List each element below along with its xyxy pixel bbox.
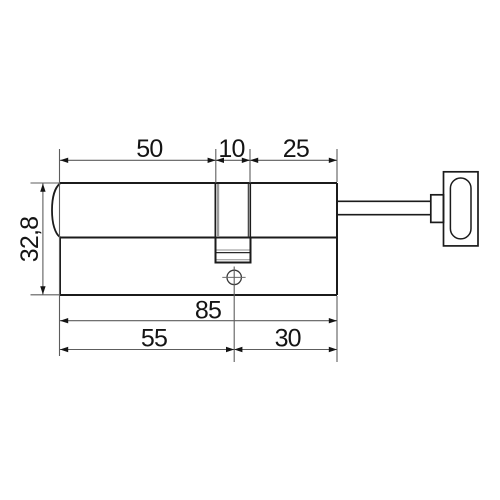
arrows 55/30 dim	[60, 347, 337, 352]
extension line right bottom x=337	[336, 296, 338, 362]
dimension line top (50/10/25)	[60, 159, 337, 161]
extension line x=215.8	[215, 149, 217, 183]
cam section left inner shade	[217, 184, 220, 236]
extension line right top x=337	[336, 149, 338, 182]
thumbturn bow	[444, 172, 479, 246]
svg-text:25: 25	[283, 135, 309, 163]
svg-text:55: 55	[141, 324, 167, 352]
arrows top dim	[60, 158, 337, 163]
dimension line 85	[60, 320, 337, 322]
cam section left edge	[214, 184, 216, 238]
arrows 85 dim	[60, 318, 337, 323]
thumbturn grip slot	[450, 178, 471, 239]
cam lug below body	[216, 238, 251, 263]
cam lug line 3	[217, 259, 250, 261]
extension line screw hole x=234.2	[233, 267, 235, 363]
thumbturn collar	[431, 195, 444, 223]
extension line x=250	[249, 149, 251, 183]
svg-text:30: 30	[275, 324, 301, 352]
fixing screw hole	[227, 270, 241, 284]
svg-text:10: 10	[218, 135, 244, 163]
svg-text:32,8: 32,8	[16, 217, 44, 262]
svg-text:50: 50	[136, 135, 162, 163]
cam section right inner edge	[247, 184, 249, 238]
screw hole cross horizontal	[222, 276, 245, 278]
extension line 32.8 top	[31, 182, 60, 184]
tailpiece stem bottom	[337, 214, 431, 216]
dimension line 32.8	[42, 184, 44, 295]
cylinder body outline	[60, 183, 338, 295]
barrel left end arc	[52, 184, 60, 238]
arrows 32.8 dim	[40, 184, 45, 295]
tailpiece stem top	[337, 200, 431, 202]
extension line 32.8 bottom	[31, 294, 60, 296]
cam section right edge	[249, 184, 251, 238]
extension line left x=59.5	[59, 149, 61, 356]
svg-text:85: 85	[195, 297, 221, 325]
dimension line 55/30	[60, 349, 337, 351]
cam lug line 1	[217, 249, 250, 251]
cam lug line 2	[217, 252, 250, 254]
